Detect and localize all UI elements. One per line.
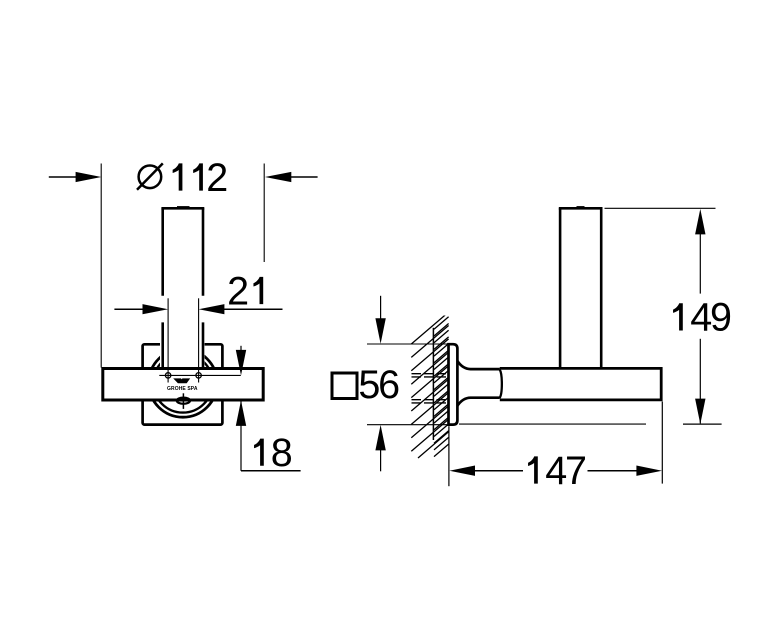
wall hatch long diagonals (411, 312, 448, 458)
bottom shaft (380, 450, 382, 472)
cone top (457, 361, 500, 369)
dim 21 extension line left (167, 298, 169, 382)
anchor dashed lines top (412, 374, 449, 377)
dim 56 ext top (367, 343, 448, 345)
post right edge (gap at dim arrows) (202, 208, 205, 368)
ext line left (100, 164, 102, 368)
wall hatch dense ticks (434, 317, 449, 457)
GROHE wing logo (173, 378, 190, 383)
leader horizontal (241, 470, 301, 472)
label 21 (227, 269, 263, 313)
mounting plate (side) (449, 344, 458, 424)
joint end-cap curve (500, 369, 502, 398)
post top center tick (577, 206, 585, 208)
label 149 (673, 296, 731, 340)
right arrow shaft (291, 176, 318, 178)
left arrowhead (76, 172, 102, 182)
post (side) right edge (600, 208, 603, 367)
post (front) fill mask (160, 207, 205, 369)
left arrow shaft (49, 176, 77, 178)
bottom screw axis line (182, 393, 184, 409)
upper shaft (699, 232, 701, 294)
label 18 (254, 431, 292, 475)
post (side) left edge (559, 208, 562, 367)
right shaft (224, 308, 283, 310)
wall line (432, 328, 434, 440)
upper arrowhead (down) (236, 350, 246, 376)
dim 56 ext bottom (367, 424, 448, 426)
bar (side) open rect (500, 368, 661, 400)
upper shaft (240, 346, 242, 352)
plate-bottom reference line across (459, 423, 646, 425)
right arrowhead (636, 466, 662, 476)
post left edge (gap at dim arrows) (161, 208, 164, 368)
right arrowhead (199, 304, 225, 314)
left shaft (114, 308, 143, 310)
diameter symbol circle (139, 166, 162, 189)
left arrowhead (143, 304, 169, 314)
lower shaft (240, 400, 242, 471)
dim 21 extension line right (198, 298, 200, 382)
lower shaft (699, 339, 701, 424)
rosette inner circle (153, 353, 212, 412)
down arrowhead (695, 399, 705, 425)
svg-text:GROHE SPA: GROHE SPA (167, 386, 198, 392)
top arrowhead (down) (375, 318, 385, 344)
diameter symbol slash (137, 163, 163, 189)
lower arrowhead (up) (236, 400, 246, 426)
top ext line (605, 207, 716, 209)
label 147 (528, 449, 585, 493)
up arrowhead (695, 209, 705, 235)
rosette outer circle (149, 349, 217, 417)
svg-text:8: 8 (271, 431, 292, 475)
svg-text:2: 2 (227, 269, 247, 313)
left arrowhead (449, 466, 475, 476)
square symbol (332, 373, 357, 399)
screw right (196, 373, 201, 378)
svg-text:49: 49 (690, 296, 731, 340)
left shaft (474, 470, 523, 472)
bottom arrowhead (up) (375, 425, 385, 451)
top shaft (380, 296, 382, 320)
right arrowhead (265, 172, 291, 182)
screw center line (159, 374, 241, 376)
right shaft (588, 470, 639, 472)
anchor dashed lines bottom (412, 400, 449, 403)
left ext line (448, 426, 450, 486)
cone bottom (457, 398, 500, 406)
screw left (165, 373, 170, 378)
post (side) top edge (559, 207, 603, 210)
mounting plate (front) (143, 344, 223, 424)
label 112 (173, 156, 227, 200)
roll bar (front) (103, 369, 263, 401)
svg-text:56: 56 (358, 363, 399, 407)
svg-text:47: 47 (545, 449, 585, 493)
ext line right (263, 164, 265, 263)
post top edge (161, 207, 204, 210)
bottom screw ellipse (177, 398, 190, 404)
svg-text:2: 2 (206, 156, 226, 200)
bottom ext line (683, 423, 722, 425)
right ext line (661, 402, 663, 484)
post top center tick (177, 206, 190, 208)
